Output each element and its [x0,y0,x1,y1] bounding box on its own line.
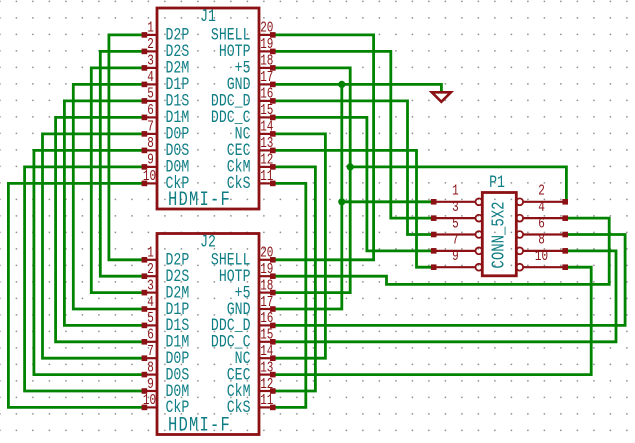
pin J1.1 stub [143,34,157,36]
svg-text:12: 12 [260,375,273,392]
svg-text:3: 3 [452,199,459,216]
pin J1.18 stub [259,67,274,69]
svg-text:4: 4 [147,69,154,86]
pin P1.10 stub [523,266,566,268]
pin J2.1 stub [143,259,157,261]
junction +5 branch [347,163,354,170]
pin J2.11 stub [259,406,274,408]
wire net CEC_A J1.13 to P1.9 [274,150,433,267]
svg-text:9: 9 [147,375,154,392]
svg-text:14: 14 [260,118,273,135]
pin J1.15 stub [259,116,274,118]
svg-text:11: 11 [260,392,273,409]
svg-text:17: 17 [260,69,273,86]
pin J2.17 stub [259,308,274,310]
pin P1.3 circle [476,215,483,222]
svg-text:12: 12 [260,151,273,168]
pin P1.2 stub [523,201,566,203]
svg-text:HDMI-F: HDMI-F [168,415,231,438]
pin P1.9 circle [476,264,483,271]
pin J2.7 stub [143,357,157,359]
svg-text:19: 19 [260,261,273,278]
svg-text:13: 13 [260,135,273,152]
pin J1.20 stub [259,34,274,36]
svg-text:18: 18 [260,52,273,69]
junction GND at J1.17 row [338,81,345,88]
wire net DDC_C_B P1.8 to J2.15 [274,251,616,342]
svg-text:7: 7 [147,343,154,360]
pin J2.10 stub [143,406,157,408]
pin J1.4 stub [143,83,157,85]
svg-text:1: 1 [147,244,154,261]
pin J1.13 stub [259,149,274,151]
pin P1.8 circle [516,247,523,254]
pin J2.14 stub [259,357,274,359]
svg-text:15: 15 [260,326,273,343]
wire net CEC_B P1.10 to J2.13 [274,267,591,374]
svg-text:10: 10 [143,392,156,409]
wire net CkS J1.11 to J2.11 [274,183,306,407]
junction GND at P1.1 row [338,198,345,205]
pin J1.10 stub [143,182,157,184]
svg-text:7: 7 [452,231,459,248]
svg-text:7: 7 [147,118,154,135]
wire net D0P J1.7 to J2.7 [43,134,144,358]
svg-text:CkS: CkS [227,398,251,418]
wire net GND J1.17 to ground symbol [274,84,441,92]
wire net CkP J1.10 to J2.10 [8,183,143,407]
pin J2.4 stub [143,308,157,310]
pin P1.2 circle [516,198,523,205]
svg-text:14: 14 [260,343,273,360]
svg-text:2: 2 [147,261,154,278]
connector P1 CONN_5X2 body [482,193,516,276]
wire net GND branch to P1.1 [342,200,433,203]
pin J2.6 stub [143,341,157,343]
pin J1.12 stub [259,166,274,168]
pin P1.3 stub [433,217,476,219]
svg-text:4: 4 [538,199,545,216]
pin J2.15 stub [259,341,274,343]
svg-text:CkP: CkP [166,174,190,194]
svg-text:3: 3 [147,277,154,294]
wire net DDC_D_B P1.6 to J2.16 [274,235,625,326]
svg-text:2: 2 [147,36,154,53]
pin J2.16 stub [259,324,274,326]
wire net D2P J1.1 to J2.1 [109,35,143,260]
pin J1.8 stub [143,149,157,151]
pin P1.7 stub [433,250,476,252]
wire net D2S J1.2 to J2.2 [100,51,143,276]
pin P1.1 circle [476,198,483,205]
pin J1.16 stub [259,100,274,102]
svg-text:P1: P1 [489,172,505,192]
pin J2.13 stub [259,374,274,376]
svg-text:J1: J1 [200,6,216,26]
pin J2.19 stub [259,275,274,277]
wire net D2M J1.3 to J2.3 [91,68,143,293]
wire net D1S J1.5 to J2.5 [64,101,143,326]
pin P1.5 circle [476,231,483,238]
svg-text:9: 9 [147,151,154,168]
pin P1.6 circle [516,231,523,238]
svg-text:5: 5 [147,310,154,327]
svg-text:8: 8 [147,135,154,152]
connector J1 HDMI-F body [157,8,259,209]
svg-text:5: 5 [452,215,459,232]
pin P1.1 stub [433,201,476,203]
wire net CkM J1.12 to J2.12 [274,167,315,391]
svg-text:CONN_5X2: CONN_5X2 [488,201,509,268]
svg-text:6: 6 [147,326,154,343]
svg-text:17: 17 [260,293,273,310]
svg-text:1: 1 [452,182,459,199]
pin J1.3 stub [143,67,157,69]
svg-text:8: 8 [147,359,154,376]
pin J1.14 stub [259,133,274,135]
pin J2.5 stub [143,324,157,326]
pin P1.10 circle [516,264,523,271]
pin P1.4 stub [523,217,566,219]
wire net +5 J1.18 to J2.18 [274,68,350,293]
wire net +5 branch to P1.2 [350,167,566,202]
pin J2.3 stub [143,292,157,294]
svg-text:8: 8 [538,231,545,248]
pin J2.12 stub [259,390,274,392]
svg-text:3: 3 [147,52,154,69]
wire net NC J1.14 to J2.14 [274,134,325,358]
svg-text:6: 6 [538,215,545,232]
svg-text:13: 13 [260,359,273,376]
wire net DDC_C_A J1.15 to P1.7 [274,117,433,250]
pin J2.8 stub [143,374,157,376]
wire net D0M J1.9 to J2.9 [25,167,144,391]
svg-text:20: 20 [260,19,273,36]
connector J2 HDMI-F body [157,234,259,435]
wire net D1P J1.4 to J2.4 [73,84,143,309]
svg-text:16: 16 [260,85,273,102]
pin P1.5 stub [433,233,476,235]
svg-text:2: 2 [538,182,545,199]
pin P1.9 stub [433,266,476,268]
pin J2.9 stub [143,390,157,392]
svg-text:1: 1 [147,19,154,36]
svg-text:16: 16 [260,310,273,327]
svg-text:10: 10 [535,248,548,265]
pin J1.2 stub [143,50,157,52]
pin P1.7 circle [476,247,483,254]
wire net SHELL J1.20 to J2.20 [274,35,374,260]
svg-text:CkP: CkP [166,398,190,418]
wire net HOTP_A J1.19 to P1.3 [274,51,433,218]
svg-text:4: 4 [147,293,154,310]
pin J1.5 stub [143,100,157,102]
pin J2.18 stub [259,292,274,294]
pin J1.11 stub [259,182,274,184]
wire net DDC_D_A J1.16 to P1.5 [274,101,433,235]
svg-text:5: 5 [147,85,154,102]
pin P1.8 stub [523,250,566,252]
svg-text:11: 11 [260,168,273,185]
svg-text:19: 19 [260,36,273,53]
wire net GND vertical to J2.17 [274,84,342,309]
wire net D0S J1.8 to J2.8 [34,150,143,374]
svg-text:10: 10 [143,168,156,185]
svg-text:18: 18 [260,277,273,294]
svg-text:CkS: CkS [227,174,251,194]
ground symbol [432,92,451,102]
pin J1.7 stub [143,133,157,135]
pin J2.20 stub [259,259,274,261]
svg-text:9: 9 [452,248,459,265]
pin P1.6 stub [523,233,566,235]
wire net HOTP_B P1.4 to J2.19 [274,218,609,284]
pin P1.4 circle [516,215,523,222]
pin J1.17 stub [259,83,274,85]
wire net D1M J1.6 to J2.6 [56,117,144,341]
pin J1.9 stub [143,166,157,168]
svg-text:20: 20 [260,244,273,261]
svg-text:15: 15 [260,102,273,119]
pin J2.2 stub [143,275,157,277]
pin J1.6 stub [143,116,157,118]
svg-text:6: 6 [147,102,154,119]
pin J1.19 stub [259,50,274,52]
